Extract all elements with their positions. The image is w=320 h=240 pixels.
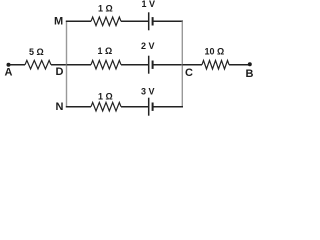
battery B2 2V long plate [148, 56, 150, 74]
svg-text:1 V: 1 V [142, 0, 156, 9]
svg-text:M: M [54, 16, 63, 28]
wire R1 top to battery 1V [121, 20, 148, 22]
svg-text:10 Ω: 10 Ω [205, 47, 225, 57]
riser C vertical [181, 21, 183, 106]
wire battery 2V to C [154, 64, 183, 66]
svg-text:B: B [246, 68, 254, 80]
wire R5 to D [51, 64, 67, 66]
wire C to R10 [182, 64, 202, 66]
svg-text:3 V: 3 V [141, 87, 155, 97]
svg-text:1 Ω: 1 Ω [98, 4, 113, 14]
resistor R1 bottom 1ohm [91, 102, 121, 111]
node A [7, 63, 11, 67]
svg-text:5 Ω: 5 Ω [29, 47, 44, 57]
resistor R1 mid 1ohm [91, 60, 121, 69]
wire battery 1V to C riser [154, 20, 184, 22]
battery B1 1V short plate [152, 17, 154, 25]
wire R1 mid to battery 2V [121, 64, 148, 66]
svg-text:2 V: 2 V [141, 41, 155, 51]
wire battery 3V to C riser bottom [154, 106, 184, 108]
battery B3 3V short plate [152, 103, 154, 111]
battery B3 3V long plate [148, 98, 150, 116]
wire R10 to B [229, 64, 250, 66]
svg-text:C: C [185, 67, 193, 79]
svg-text:A: A [5, 67, 13, 79]
wire A to R5 [9, 64, 26, 66]
wire D to R1 mid [67, 64, 92, 66]
svg-text:1 Ω: 1 Ω [98, 92, 113, 102]
svg-text:1 Ω: 1 Ω [98, 46, 113, 56]
node B [248, 62, 252, 66]
resistor R10 10ohm [202, 60, 229, 69]
battery B2 2V short plate [152, 61, 154, 69]
svg-text:N: N [56, 101, 64, 113]
battery B1 1V long plate [148, 12, 150, 30]
wire N corner to R1 bottom [66, 106, 91, 108]
wire top-left corner to R1 top [66, 20, 91, 22]
wire R1 bottom to battery 3V [121, 106, 148, 108]
svg-text:D: D [56, 66, 64, 78]
resistor R1 top 1ohm [91, 17, 121, 26]
resistor R5 5ohm [25, 60, 51, 69]
riser D vertical [66, 21, 68, 106]
